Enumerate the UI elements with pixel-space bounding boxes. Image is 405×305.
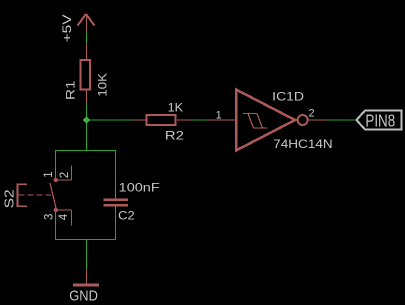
- svg-text:R2: R2: [165, 129, 184, 143]
- svg-text:100nF: 100nF: [119, 180, 160, 194]
- svg-text:+5V: +5V: [60, 14, 74, 42]
- svg-text:S2: S2: [2, 189, 17, 208]
- svg-text:4: 4: [58, 213, 70, 220]
- svg-text:2: 2: [59, 172, 71, 178]
- svg-text:1: 1: [216, 110, 222, 122]
- svg-text:IC1D: IC1D: [272, 90, 304, 104]
- svg-text:R1: R1: [64, 80, 78, 100]
- svg-text:C2: C2: [118, 209, 135, 223]
- svg-text:1: 1: [43, 171, 55, 177]
- svg-text:2: 2: [309, 108, 315, 120]
- svg-text:GND: GND: [69, 289, 98, 305]
- svg-text:74HC14N: 74HC14N: [273, 137, 333, 151]
- svg-text:3: 3: [43, 214, 55, 220]
- svg-text:1K: 1K: [168, 101, 184, 115]
- svg-text:PIN8: PIN8: [365, 111, 395, 131]
- svg-text:10K: 10K: [96, 73, 110, 97]
